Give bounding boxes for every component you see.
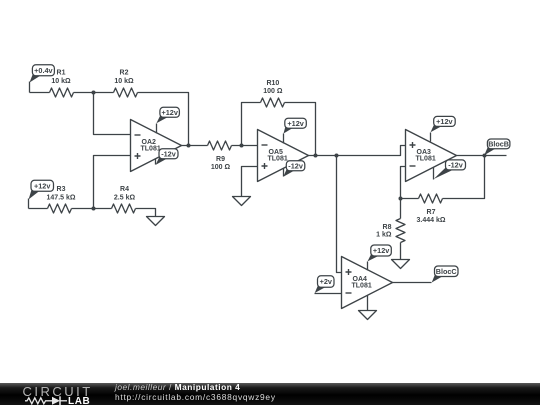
wire OA2 output to R9	[182, 145, 208, 147]
footer bar	[0, 383, 540, 405]
ground (R8)	[392, 260, 410, 269]
OA2 +12v supply stub	[156, 124, 158, 134]
svg-text:+12v: +12v	[161, 108, 178, 117]
resistor R9 100	[208, 141, 232, 171]
svg-text:1 kΩ: 1 kΩ	[376, 232, 392, 239]
svg-text:-12v: -12v	[161, 149, 177, 158]
op-amp OA4 TL081 (non-inv input on top)	[342, 257, 393, 309]
svg-text:-12v: -12v	[448, 161, 464, 170]
node B junction	[92, 207, 96, 211]
wire R9 to OA5 inverting input	[232, 145, 258, 147]
supply label -12v (OA2)	[156, 149, 178, 165]
op-amp OA2 TL081	[131, 120, 182, 172]
svg-text:+12v: +12v	[34, 181, 51, 190]
supply label +12v (OA4)	[368, 245, 392, 261]
supply label +12v (OA5)	[284, 118, 307, 133]
wire OA5 output to OA3	[309, 146, 406, 156]
supply label -12v (OA5)	[283, 161, 305, 177]
wire node E to R8	[400, 199, 402, 219]
svg-text:R8: R8	[383, 224, 392, 231]
supply label +12v (OA3)	[431, 116, 456, 132]
resistor R10 100 feedback	[261, 80, 285, 107]
svg-text:TL081: TL081	[416, 156, 436, 163]
svg-text:R9: R9	[216, 156, 225, 163]
svg-text:TL081: TL081	[141, 146, 161, 153]
svg-text:BlocC: BlocC	[436, 267, 457, 276]
wire R1 to node A	[74, 92, 94, 94]
node OA5 output junction	[314, 154, 318, 158]
resistor R7 3.444k feedback	[417, 194, 446, 224]
R7 feedback wire right leg	[443, 156, 485, 199]
supply label +12v (OA2)	[156, 107, 179, 123]
wire from +0.4v to R1	[30, 92, 50, 94]
supply label -12v (OA3)	[434, 160, 466, 179]
R10 feedback loop wire	[242, 103, 261, 146]
OA3 +12v supply stub	[430, 133, 432, 142]
ground (OA5 + input)	[233, 197, 251, 206]
wire node B to R4	[94, 208, 112, 210]
node C junction (OA5 inv input)	[240, 144, 244, 148]
wire node A to OA2 inverting input	[94, 93, 131, 135]
node D junction (to OA4)	[335, 154, 339, 158]
svg-text:+12v: +12v	[436, 117, 453, 126]
wire R7 to node E	[401, 198, 419, 200]
svg-text:+12v: +12v	[373, 246, 390, 255]
OA4 +12v supply stub	[367, 262, 369, 271]
svg-text:TL081: TL081	[352, 283, 372, 290]
voltage source +0.4v	[30, 65, 55, 93]
wire R10 to OA5 output	[285, 103, 316, 156]
svg-text:+12v: +12v	[287, 119, 304, 128]
wire R4 to ground	[136, 209, 156, 217]
svg-text:10 kΩ: 10 kΩ	[114, 78, 134, 85]
wire OA3 output to BlocB	[457, 155, 507, 157]
ground (R4)	[147, 217, 165, 226]
svg-text:R10: R10	[266, 80, 279, 87]
CircuitLab logo	[0, 383, 110, 405]
wire OA3 inverting input to node E	[401, 167, 406, 199]
svg-text:147.5 kΩ: 147.5 kΩ	[47, 195, 76, 202]
resistor R8 1k	[376, 219, 405, 243]
svg-text:R4: R4	[120, 186, 129, 193]
node E junction	[399, 197, 403, 201]
svg-text:100 Ω: 100 Ω	[211, 164, 231, 171]
node A junction	[92, 91, 96, 95]
svg-text:R1: R1	[57, 70, 66, 77]
svg-text:LAB: LAB	[68, 396, 90, 405]
resistor R2 10k feedback	[114, 70, 138, 98]
voltage source +12v (R3)	[29, 180, 54, 208]
node OA3 output junction	[483, 154, 487, 158]
resistor R1 10k	[50, 70, 74, 98]
svg-text:10 kΩ: 10 kΩ	[51, 78, 71, 85]
OA2 -12v supply stub	[155, 159, 157, 165]
OA5 -12v supply stub	[283, 169, 285, 177]
OA4 ground stub	[367, 296, 369, 311]
svg-text:R3: R3	[57, 186, 66, 193]
OA3 -12v supply stub	[433, 168, 435, 180]
wire R8 to ground	[400, 243, 402, 260]
resistor R4 2.5k	[112, 186, 136, 213]
wire R3 to node B	[72, 208, 94, 210]
OA5 +12v supply stub	[283, 134, 285, 144]
node OA2 output junction	[187, 144, 191, 148]
svg-text:TL081: TL081	[268, 156, 288, 163]
svg-text:+0.4v: +0.4v	[34, 66, 53, 75]
svg-text:+2v: +2v	[320, 277, 333, 286]
svg-text:R2: R2	[120, 70, 129, 77]
wire node B to OA2 non-inverting input	[94, 156, 131, 209]
svg-text:R7: R7	[427, 209, 436, 216]
svg-text:100 Ω: 100 Ω	[263, 88, 283, 95]
wire R2 to OA2 output (feedback)	[138, 93, 189, 146]
svg-text:3.444 kΩ: 3.444 kΩ	[417, 217, 446, 224]
svg-text:-12v: -12v	[288, 161, 304, 170]
wire node A to R2	[94, 92, 114, 94]
wire OA4 output to BlocC	[393, 282, 432, 284]
ground (OA4)	[359, 311, 377, 320]
wire OA5 non-inverting input to ground	[242, 167, 258, 197]
svg-text:2.5 kΩ: 2.5 kΩ	[114, 195, 136, 202]
wire +12v to R3	[29, 208, 48, 210]
op-amp OA5 TL081	[258, 130, 309, 182]
voltage source +2v	[315, 276, 342, 294]
wire node D to OA4 non-inverting input	[337, 156, 342, 273]
svg-text:BlocB: BlocB	[488, 140, 509, 149]
net flag BlocC	[432, 266, 458, 283]
op-amp OA3 TL081 (non-inv input on top)	[406, 130, 457, 182]
net flag BlocB	[484, 139, 510, 155]
resistor R3 147.5k	[47, 186, 76, 213]
